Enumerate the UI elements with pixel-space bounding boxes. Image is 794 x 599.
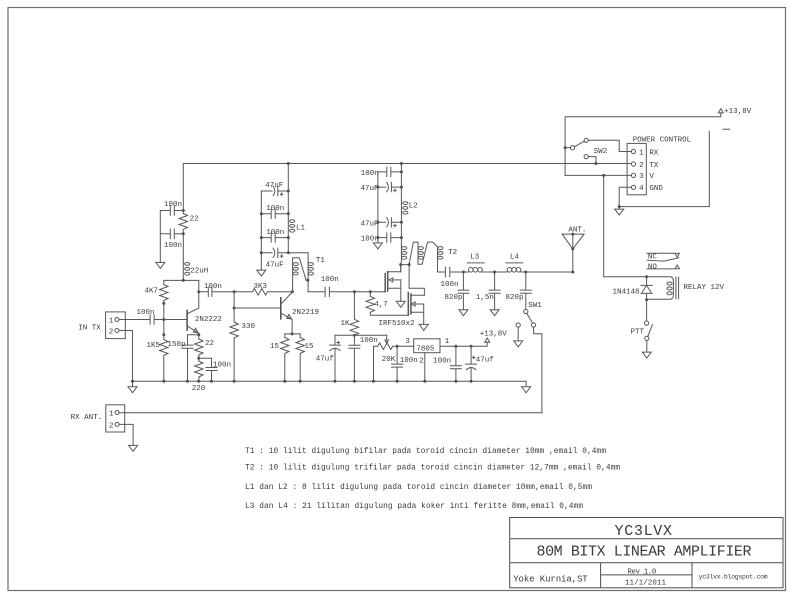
svg-text:47uF: 47uF (361, 185, 379, 193)
capacitor 1,5n (489, 272, 500, 310)
svg-text:3K3: 3K3 (254, 283, 268, 291)
ground (IRF510 #2 source) (419, 324, 428, 330)
svg-text:1: 1 (639, 149, 644, 157)
node junction collector 2N2219 / T1 (291, 290, 294, 293)
capacitor 100n (rail bypass top) (160, 206, 183, 216)
node junction LPF in (462, 271, 465, 274)
svg-text:2: 2 (419, 358, 424, 366)
svg-text:100n: 100n (400, 357, 418, 365)
svg-text:100n: 100n (213, 362, 231, 370)
svg-text:7805: 7805 (416, 346, 435, 354)
wire 20K left terminal to bus (373, 346, 375, 381)
svg-text:GND: GND (649, 185, 663, 193)
svg-text:100n: 100n (321, 276, 339, 284)
svg-text:100n: 100n (164, 201, 182, 209)
svg-text:4,7: 4,7 (374, 301, 388, 309)
svg-text:SW1: SW1 (528, 302, 542, 310)
capacitor 47uF (L1 col top) (261, 186, 288, 195)
svg-text:22: 22 (190, 216, 199, 224)
wire collector feed horizontal (164, 279, 199, 281)
relay contact NC (647, 253, 680, 257)
supply arrow +13,8V (top right) (718, 109, 723, 117)
capacitor 100n (input coupling) (119, 315, 187, 325)
potentiometer 20K body (374, 343, 398, 350)
inductor L1 (287, 219, 289, 253)
svg-text:L1: L1 (296, 225, 306, 233)
svg-text:T2 : 10 lilit digulung trifila: T2 : 10 lilit digulung trifilar pada tor… (245, 464, 620, 472)
transformer T1 primary winding (293, 258, 307, 280)
wire node A vertical (234, 292, 281, 308)
svg-text:47uf: 47uf (476, 357, 495, 365)
node junction 7805 pin3 (396, 345, 399, 348)
svg-text:2: 2 (109, 422, 114, 430)
transistor Q1 2N2222 (186, 311, 188, 331)
inductor L4 (495, 271, 508, 273)
wire L2 decoupling column (400, 164, 402, 201)
svg-text:4K7: 4K7 (145, 288, 159, 296)
svg-text:20K: 20K (382, 356, 396, 364)
node junction rail foot (182, 279, 185, 282)
transistor Q2 2N2219 (280, 298, 282, 319)
svg-text:100n: 100n (361, 236, 379, 244)
svg-text:+13,8V: +13,8V (724, 108, 752, 116)
transistor U IRF510 #2 (407, 293, 409, 316)
ground (820p first) (459, 310, 468, 316)
resistor 15 (left) (281, 334, 289, 381)
wire collector riser to T1 (292, 277, 294, 292)
resistor 4,7 (gate 2) (366, 292, 408, 315)
transformer T2 winding 1 (400, 247, 403, 265)
node junction LPF out (524, 271, 527, 274)
svg-text:V: V (649, 173, 654, 181)
svg-text:80M BITX LINEAR AMPLIFIER: 80M BITX LINEAR AMPLIFIER (537, 544, 752, 561)
ground (IRF510 #1 source) (396, 301, 405, 307)
wire rail between 22 and 22uH (182, 230, 184, 262)
svg-text:L2: L2 (409, 203, 418, 211)
capacitor 100n (L1 col lower) (261, 233, 288, 242)
svg-text:yc3lvx.blogspot.com: yc3lvx.blogspot.com (699, 574, 768, 581)
svg-text:100n: 100n (360, 337, 378, 345)
svg-text:2N2219: 2N2219 (292, 309, 319, 317)
svg-text:YC3LVX: YC3LVX (615, 523, 673, 540)
node junction rail/L1 column (287, 162, 290, 165)
wire V row to pin3 (565, 174, 631, 176)
svg-text:ANT.: ANT. (568, 227, 586, 235)
inductor 22uH (182, 262, 184, 281)
capacitor 820p (first) (458, 272, 469, 310)
svg-text:L3 dan L4 : 21 lilitan digulun: L3 dan L4 : 21 lilitan digulung pada kok… (245, 503, 583, 511)
svg-text:1N4148: 1N4148 (613, 288, 640, 296)
svg-text:1K: 1K (341, 320, 351, 328)
svg-text:L3: L3 (470, 254, 480, 262)
svg-text:11/1/2011: 11/1/2011 (625, 579, 666, 587)
svg-text:NC: NC (648, 254, 658, 262)
svg-text:1: 1 (109, 318, 114, 326)
wire pin4 GND (619, 187, 631, 206)
node dot below 4K7 (162, 302, 165, 305)
svg-text:L1 dan L2 : 8 lilit digulung p: L1 dan L2 : 8 lilit digulung pada toroid… (245, 484, 592, 492)
resistor 4K7 (160, 280, 168, 319)
svg-text:T2: T2 (448, 249, 457, 257)
svg-text:TX: TX (649, 162, 659, 170)
wire emitter to 150p (188, 335, 199, 345)
wire L1 decoupling column (287, 164, 289, 219)
svg-text:47uF: 47uF (361, 220, 379, 228)
ground (bus left end) (128, 381, 137, 393)
resistor 3K3 (feedback) (234, 289, 292, 296)
svg-text:3: 3 (639, 173, 644, 181)
supply arrow +13,8V (7805 input) (485, 338, 490, 342)
svg-text:100n: 100n (164, 242, 182, 250)
node junction rail/100n bottom (182, 232, 185, 235)
node junction relay bottom (645, 298, 648, 301)
ground (L2 column) (373, 243, 382, 249)
title block frame (510, 518, 783, 588)
resistor 1K (gate bias) (350, 292, 358, 336)
svg-text:4: 4 (639, 185, 644, 193)
wire +13,8V rail (565, 117, 721, 176)
resistor 330 (230, 308, 238, 381)
node junction emitter 2N2219 (291, 332, 294, 335)
antenna ANT. (562, 234, 584, 272)
resistor 22 (decoupling, first stage rail) (179, 214, 187, 230)
svg-text:100n: 100n (266, 229, 284, 237)
wire TX supply rail (pin2 TX to first stage) (183, 164, 631, 214)
svg-text:100n: 100n (266, 205, 284, 213)
svg-text:L4: L4 (510, 254, 520, 262)
switch SW2 RX throw (584, 138, 588, 142)
transistor U IRF510 #1 (384, 274, 386, 292)
ground (first stage bypass) (156, 262, 165, 268)
svg-text:IRF510x2: IRF510x2 (379, 320, 415, 328)
connector RX ANT (106, 405, 125, 432)
svg-text:PTT: PTT (631, 329, 645, 337)
capacitor 100n (interstage coupling) (199, 287, 234, 296)
capacitor 47uF (L2 col) (378, 182, 402, 191)
node junction rail/L2 column (400, 162, 403, 165)
svg-text:Yoke Kurnia,ST: Yoke Kurnia,ST (513, 575, 588, 585)
capacitor 100n (L2 col bottom) (378, 233, 402, 242)
relay coil RELAY 12V (647, 277, 674, 300)
wire bias node row (335, 334, 387, 336)
svg-text:IN TX: IN TX (78, 325, 101, 333)
capacitor 100n (output coupling after T2) (445, 267, 463, 276)
svg-text:47uF: 47uF (265, 182, 283, 190)
node junction 4K7/base line (162, 318, 165, 321)
node junction V row (602, 174, 605, 177)
node junction relay top (645, 275, 648, 278)
svg-text:820p: 820p (506, 294, 524, 302)
node junction emitter 2N2222 (197, 333, 200, 336)
node junctions T2 bottom (401, 265, 409, 272)
node A junction top (233, 290, 236, 293)
ground bus (133, 380, 527, 382)
capacitor 100n (L1 col) (261, 209, 288, 218)
svg-text:220: 220 (192, 385, 206, 393)
wire GND row to minus terminal (619, 132, 709, 207)
svg-text:15: 15 (270, 343, 280, 351)
capacitor 100n (gate coupling) (308, 287, 385, 296)
node A junction base (233, 307, 236, 310)
capacitor 47uf (supply electrolytic) (466, 346, 477, 381)
relay contact NO (647, 265, 680, 269)
svg-text:22uH: 22uH (190, 268, 208, 276)
wire RX line (119, 412, 542, 414)
svg-text:47uf: 47uf (316, 356, 335, 364)
wire 7805 pin1 to +13,8V (440, 342, 487, 346)
inductor L2 (400, 201, 402, 247)
transformer T2 winding 3 (418, 256, 423, 259)
capacitor 100n (7805 in bypass) (450, 346, 461, 381)
svg-text:2N2222: 2N2222 (195, 316, 222, 324)
capacitor 47uF (L1 col bottom) (261, 248, 288, 257)
svg-text:Rev 1.0: Rev 1.0 (627, 568, 656, 576)
diode 1N4148 (641, 277, 652, 300)
svg-text:3: 3 (405, 338, 410, 346)
wire V drop to relay (604, 175, 647, 276)
ground (bus right end) (522, 381, 531, 393)
wire SW1 to RX line (534, 327, 542, 413)
ground (PTT) (642, 352, 651, 358)
node junction rail/SW2 TX throw (594, 162, 597, 165)
switch SW1 (524, 309, 528, 313)
switch SW2 blade (574, 141, 584, 147)
svg-text:15: 15 (305, 343, 315, 351)
resistor 220 (195, 358, 203, 381)
svg-text:100n: 100n (441, 281, 459, 289)
capacitor 100n (L2 col top) (378, 167, 402, 176)
transformer T1 secondary winding (307, 262, 309, 281)
capacitor 820p (second) (520, 272, 531, 309)
regulator 7805 (397, 345, 414, 347)
svg-text:47uF: 47uF (266, 262, 284, 270)
svg-text:POWER CONTROL: POWER CONTROL (633, 137, 692, 145)
svg-text:+13,8V: +13,8V (480, 331, 508, 339)
minus terminal mark (723, 128, 730, 130)
node junction L3/L4 (493, 271, 496, 274)
svg-text:2: 2 (639, 162, 644, 170)
node dot on 1K5 column (162, 333, 165, 336)
wire IN TX pin2 to ground (119, 331, 133, 382)
svg-text:100n: 100n (137, 309, 155, 317)
wire L1 col left stub (260, 191, 262, 270)
node junction collector/100n branch (197, 290, 200, 293)
svg-text:1,5n: 1,5n (476, 294, 494, 302)
resistor 22 (emitter) (195, 335, 203, 358)
wire 7805 pin2 to bus (424, 353, 426, 382)
svg-text:2: 2 (109, 329, 114, 337)
switch SW2 common (565, 147, 570, 149)
switch PTT (646, 300, 648, 321)
ground (L1 column) (257, 270, 266, 276)
capacitor 100n (bias bypass) (349, 335, 360, 381)
svg-text:SW2: SW2 (594, 148, 608, 156)
wire left stub of rail bypass caps (159, 211, 161, 263)
svg-text:820p: 820p (445, 294, 463, 302)
potentiometer 20K wiper (385, 335, 389, 343)
capacitor 47uF (L2 col lower) (378, 218, 402, 227)
transformer T2 winding 2 (409, 242, 437, 265)
wire SW1 grounded throw (517, 327, 519, 341)
capacitor 100n (7805 out bypass) (392, 346, 403, 381)
ground (SW1) (514, 341, 523, 347)
resistor 15 (right) (296, 334, 304, 381)
connector IN TX (106, 312, 126, 339)
svg-text:150p: 150p (168, 341, 186, 349)
svg-text:RELAY 12V: RELAY 12V (684, 284, 725, 292)
svg-text:T1: T1 (316, 257, 326, 265)
ground (power control) (615, 207, 624, 216)
svg-text:RX ANT.: RX ANT. (71, 414, 103, 422)
svg-text:1: 1 (445, 338, 450, 346)
svg-text:22: 22 (205, 340, 214, 348)
wire L2 col left stub (377, 172, 379, 243)
connector POWER CONTROL box (627, 143, 646, 194)
relay contact blade (647, 258, 679, 261)
ground (RX ANT) (129, 445, 138, 451)
svg-text:100n: 100n (361, 170, 379, 178)
transformer T1 supply wire (288, 253, 308, 262)
capacitor 150p (182, 345, 193, 381)
wire RX ANT pin2 to ground (119, 424, 133, 445)
node junction rail/100n top (182, 209, 185, 212)
resistor 1K5 (160, 320, 168, 382)
capacitor 47uf (bias electrolytic) (330, 335, 341, 381)
svg-text:T1 : 10 lilit digulung bifilar: T1 : 10 lilit digulung bifilar pada toro… (245, 448, 606, 456)
svg-text:RX: RX (649, 149, 659, 157)
svg-text:330: 330 (242, 323, 256, 331)
capacitor 100n (rail bypass bottom) (160, 229, 183, 239)
svg-text:100n: 100n (204, 283, 222, 291)
inductor L3 (463, 271, 468, 273)
svg-text:100n: 100n (433, 358, 451, 366)
wire emitter tee (285, 333, 300, 335)
svg-text:1: 1 (109, 411, 114, 419)
node junction 22/220 (197, 357, 200, 360)
svg-text:1K5: 1K5 (147, 342, 161, 350)
ground (1,5n) (490, 310, 499, 316)
switch SW2 TX throw (584, 155, 588, 159)
capacitor 100n (emitter bypass) (199, 358, 217, 381)
svg-text:NO: NO (648, 264, 658, 272)
node junction T1 secondary (306, 279, 309, 282)
